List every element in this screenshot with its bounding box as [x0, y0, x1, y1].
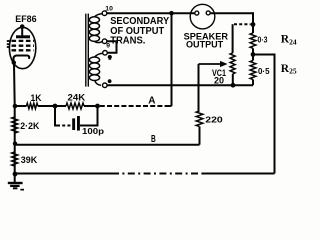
node VC1/main wire: [231, 83, 236, 88]
node 24K/cap/A: [95, 104, 100, 109]
transformer T1 coil2 bottom terminal: [103, 83, 108, 88]
node rail/bottom line: [13, 172, 18, 177]
transformer T1 pin 9 terminal: [102, 39, 107, 44]
wire node to 24K: [55, 105, 66, 107]
node right rail / VC1 dashed: [251, 22, 256, 27]
VC1 adjust arrow: [199, 63, 222, 65]
svg-text:220: 220: [205, 115, 223, 125]
transformer T1 phase dot upper: [108, 55, 112, 60]
transformer T1 secondary coil 2: [95, 53, 103, 57]
svg-text:R25: R25: [281, 63, 297, 76]
wire R24 to R25: [252, 48, 254, 60]
transformer T1 pin 10 terminal: [102, 11, 107, 16]
wire rail to 1K: [15, 105, 27, 107]
capacitor C1 right wire: [80, 106, 98, 126]
svg-text:10: 10: [105, 6, 113, 13]
svg-text:EF86: EF86: [15, 14, 36, 24]
resistor R3 2.2K on rail: [12, 117, 18, 133]
svg-text:0·5: 0·5: [258, 66, 270, 76]
jack terminal left: [195, 11, 199, 15]
speaker output jack circle: [190, 4, 215, 29]
main wire y=85: [107, 84, 253, 86]
wire node to right down-rail: [253, 55, 275, 174]
svg-text:B: B: [151, 134, 156, 145]
wire R25 bottom corner to main wire: [252, 80, 254, 86]
svg-text:2·2K: 2·2K: [20, 121, 39, 131]
svg-text:39K: 39K: [21, 155, 38, 165]
svg-text:20: 20: [214, 75, 224, 85]
wire VC1 bottom: [232, 74, 234, 85]
svg-text:0·3: 0·3: [258, 34, 268, 44]
jack terminal right: [206, 11, 210, 15]
tube V1 cathode junction dot: [12, 60, 16, 64]
wire right rail down: [252, 12, 254, 33]
node label B: [151, 134, 156, 145]
wire top line (pin10 to speaker): [107, 12, 195, 14]
wire 220 bottom to B: [199, 127, 201, 145]
variable capacitor VC1 element: [230, 53, 235, 74]
wire VC1 top vertical: [232, 24, 234, 53]
node rail/B: [13, 141, 17, 145]
svg-text:R24: R24: [281, 34, 297, 47]
wire line B: [15, 144, 200, 146]
wire dashed VC1 top link: [234, 23, 251, 25]
node 1K/24K/cap: [53, 104, 58, 109]
wire vertical x=171.5 (top line to A): [171, 13, 173, 106]
resistor R2 24K: [66, 103, 84, 109]
tube V1 cathode: [13, 56, 29, 63]
wire bottom line: [15, 173, 112, 175]
transformer T1 coil2 top terminal: [103, 51, 108, 56]
resistor R5 220: [196, 111, 203, 127]
resistor R24: [250, 33, 256, 48]
transformer T1 core: [85, 14, 87, 87]
tube V1 EF86 label: [15, 14, 36, 24]
resistor R25: [250, 61, 256, 80]
svg-text:100p: 100p: [82, 126, 104, 136]
tube V1 grids (dashed): [12, 40, 35, 42]
capacitor C1 100p branch left wire: [55, 106, 57, 126]
capacitor C1 plates: [72, 118, 75, 130]
tube V1 envelope: [9, 27, 35, 68]
svg-text:A: A: [148, 96, 155, 107]
wire top line (speaker to right rail): [210, 12, 254, 14]
transformer T1 secondary coil 1: [95, 14, 103, 17]
node R24/R25/right link: [251, 52, 256, 57]
node at rail / 1K: [13, 104, 18, 109]
svg-text:OUTPUT: OUTPUT: [186, 39, 224, 49]
svg-text:24K: 24K: [68, 92, 86, 102]
wire arrow corner down to 220: [198, 64, 200, 111]
svg-text:1K: 1K: [31, 93, 42, 103]
wire line A dashed: [100, 105, 168, 107]
transformer T1 phase dot lower: [108, 79, 112, 83]
wire pin9 jog to coil2: [107, 41, 117, 52]
wire 1K to node: [38, 105, 55, 107]
node label A: [148, 96, 155, 107]
tube V1 anode: [16, 35, 30, 38]
resistor R1 1K: [27, 103, 38, 109]
wire cathode lead / left rail: [13, 64, 16, 183]
svg-text:TRANS.: TRANS.: [110, 35, 145, 46]
ground: [8, 182, 23, 184]
resistor R4 39K on rail: [12, 152, 18, 166]
wire 24K to node: [84, 105, 98, 107]
transformer T1 box text: [110, 16, 169, 46]
